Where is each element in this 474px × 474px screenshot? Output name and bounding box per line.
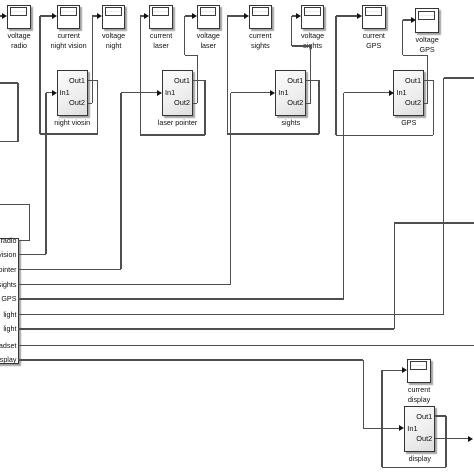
arrow into night viosin In1 <box>52 90 57 96</box>
wire loop cut at left edge (radio device) <box>0 82 18 84</box>
arrow into voltage night viosin scope <box>97 13 102 19</box>
source port label GPS <box>0 294 17 303</box>
scope voltage laser <box>197 5 221 30</box>
wire display Out1 loop to current display scope <box>435 415 446 417</box>
wire GPS row from source to GPS In1 riser <box>18 298 344 300</box>
source port label vision <box>0 250 17 259</box>
arrow into current sights scope <box>244 13 249 19</box>
arrow into sights In1 <box>270 90 275 96</box>
scope current laser <box>149 5 173 30</box>
arrow into current laser pointer scope <box>144 13 149 19</box>
arrow into voltage sights scope <box>296 13 301 19</box>
arrow into laser pointer In1 <box>157 90 162 96</box>
wire display Out2 off-screen right <box>435 438 468 440</box>
wire sights Out1 loop to current scope <box>306 80 319 82</box>
arrow into voltage laser pointer scope <box>192 13 197 19</box>
source port label light <box>0 324 17 333</box>
wire radio output loop to off-screen left <box>18 240 30 242</box>
arrow into voltage GPS scope <box>411 17 416 23</box>
scope voltage GPS <box>415 8 439 33</box>
arrow into current display scope <box>402 367 407 373</box>
scope voltage night <box>102 5 126 30</box>
wire long vertical from off-screen right to light1 row <box>444 77 474 79</box>
arrow into current GPS scope <box>357 13 362 19</box>
subsystem GPS <box>393 70 424 116</box>
subsystem display <box>404 406 435 452</box>
wire night viosin Out1 loop to current scope <box>88 80 98 82</box>
source port label pointer <box>0 265 17 274</box>
arrow into current night viosin scope <box>52 13 57 19</box>
wire headset row off-screen right <box>18 345 474 347</box>
wire sights Out2 to voltage scope <box>306 103 310 105</box>
source port label headset <box>0 341 17 350</box>
wire laser pointer Out2 to voltage scope <box>193 103 197 105</box>
scope voltage sights <box>301 5 325 30</box>
wire light2 row up and off-screen right <box>18 328 395 330</box>
wire display row from source to display In1 <box>18 359 364 361</box>
wire GPS Out1 loop to current scope <box>424 80 433 82</box>
source port label display <box>0 355 17 364</box>
wire into voltage radio scope <box>0 15 2 17</box>
source port label light <box>0 310 17 319</box>
wire light1 row to right riser <box>18 314 444 316</box>
subsystem laser pointer <box>162 70 193 116</box>
arrow into display In1 <box>399 425 404 431</box>
wire GPS Out2 to voltage scope <box>424 103 428 105</box>
wire sights row from source to sights In1 riser <box>18 284 231 286</box>
source port label radio <box>0 236 17 245</box>
arrow into GPS In1 <box>389 90 394 96</box>
scope current sights <box>249 5 273 30</box>
source port label sights <box>0 280 17 289</box>
scope current night vision <box>57 5 81 30</box>
subsystem night viosin <box>57 70 89 116</box>
wire night viosin Out2 to voltage scope <box>88 103 92 105</box>
arrow at right edge from display Out2 <box>468 436 473 442</box>
source subsystem (cut off at left edge) <box>0 238 19 365</box>
wire vision row from source to night viosin In1 riser <box>18 254 46 256</box>
scope voltage radio <box>7 5 31 30</box>
wire pointer row from source to laser pointer In1 riser <box>18 269 121 271</box>
scope current GPS <box>362 5 386 30</box>
subsystem sights <box>275 70 306 116</box>
wire laser pointer Out1 loop to current scope <box>193 80 205 82</box>
scope current display <box>407 359 431 384</box>
